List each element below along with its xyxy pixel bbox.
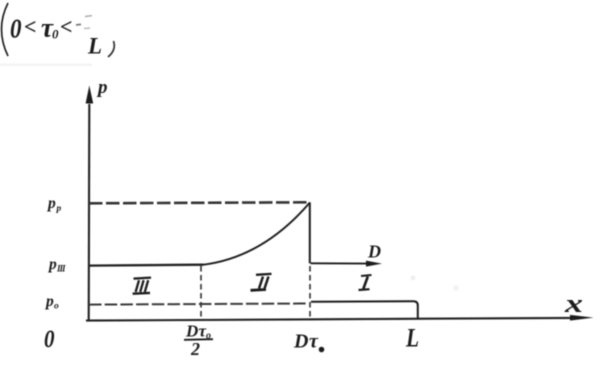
x-axis arrowhead [570, 315, 594, 321]
svg-text:p: p [44, 293, 54, 310]
formula closing parenthesis fragment [108, 41, 114, 57]
svg-text:D: D [367, 242, 381, 262]
svg-text:2: 2 [190, 339, 200, 359]
D arrowhead [366, 261, 382, 267]
svg-text:<: < [24, 14, 37, 39]
x-axis [86, 318, 576, 321]
faint smudges [411, 276, 416, 281]
svg-text:0: 0 [10, 14, 22, 44]
region label II [251, 274, 272, 290]
svg-text:D: D [185, 322, 198, 341]
region I pressure step [311, 301, 418, 319]
svg-text:p: p [96, 77, 108, 98]
svg-text:p: p [46, 195, 56, 212]
detonation front vertical solid [309, 202, 311, 263]
region label I [359, 275, 372, 290]
y-axis p [88, 104, 91, 321]
region label III [133, 278, 151, 294]
rarefaction curve region II [204, 203, 310, 265]
svg-text:p: p [56, 204, 62, 214]
faint scan streak top-left [0, 64, 92, 66]
svg-text:L: L [87, 34, 102, 59]
formula opening parenthesis [2, 3, 9, 56]
svg-text:0: 0 [52, 27, 59, 42]
D velocity arrow line [311, 262, 372, 264]
svg-text:<: < [60, 14, 73, 39]
svg-text:x: x [564, 289, 583, 318]
dashed vertical at D tau0 / 2 [200, 266, 202, 320]
svg-text:p: p [47, 256, 57, 273]
svg-text:D: D [293, 331, 308, 353]
detonation front vertical dashed [309, 266, 311, 319]
svg-text:0: 0 [44, 326, 55, 353]
dashed level p_o [89, 304, 308, 305]
dashed level p_p [89, 202, 310, 203]
svg-text:III: III [56, 264, 66, 274]
svg-text:L: L [405, 324, 419, 353]
y-axis arrowhead [86, 86, 94, 104]
formula faded fraction marks [76, 23, 81, 26]
level p_III plateau [89, 264, 204, 267]
svg-text:τ: τ [309, 331, 319, 353]
svg-text:o: o [54, 302, 59, 312]
